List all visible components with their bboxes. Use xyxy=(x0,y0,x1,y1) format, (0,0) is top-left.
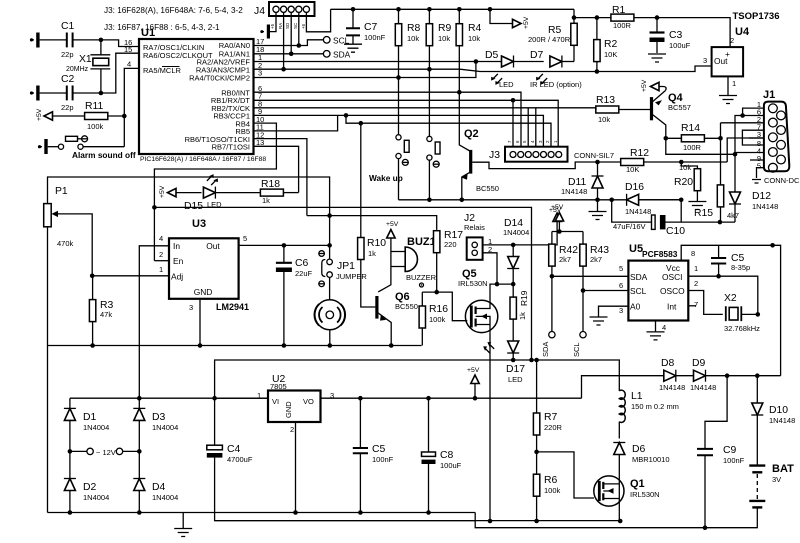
svg-text:1k: 1k xyxy=(262,196,270,205)
node C4 top xyxy=(212,396,217,401)
wire VO +5V up to D8 line xyxy=(582,376,664,399)
svg-text:10K: 10K xyxy=(626,165,639,174)
wire U5 pin8 Vcc riser xyxy=(681,245,772,260)
switch wake-up 1 xyxy=(396,78,409,200)
wire OSCO row to X2 left xyxy=(688,291,723,315)
svg-text:In: In xyxy=(173,241,180,251)
wire TSOP output row to U4 pin3 xyxy=(460,66,712,72)
J1 pin numbers xyxy=(757,100,761,171)
svg-text:J3: J3 xyxy=(489,150,500,161)
svg-text:1k: 1k xyxy=(518,312,527,320)
MOSFET Q5 IRL530N xyxy=(458,268,498,333)
ground at R20 xyxy=(688,202,706,210)
node D17 on raw line xyxy=(511,358,516,363)
wire R42 R43 top bar xyxy=(552,232,583,245)
diode D2 1N4004 xyxy=(64,451,109,512)
J3 tiny pin labels xyxy=(507,140,558,143)
svg-text:R15: R15 xyxy=(694,208,713,219)
svg-text:GND: GND xyxy=(284,401,293,418)
wire D6 to Q1 drain xyxy=(618,455,620,522)
transistor Q4 BC557 xyxy=(652,91,691,139)
wire bottom ground rail xyxy=(48,512,476,514)
svg-text:+5V: +5V xyxy=(159,185,166,198)
connector jack at C1 input xyxy=(30,33,40,48)
svg-text:100k: 100k xyxy=(429,315,446,324)
IC U5 PCF8583 xyxy=(619,243,698,321)
svg-text:100nF: 100nF xyxy=(372,455,394,464)
svg-text:J1: J1 xyxy=(763,89,775,101)
svg-text:MBR10010: MBR10010 xyxy=(632,455,670,464)
node R15 bottom xyxy=(718,220,723,225)
svg-text:+5V: +5V xyxy=(467,367,480,374)
node +5V arrow on VO line xyxy=(473,396,478,401)
J4 tiny pin net labels xyxy=(270,22,306,29)
wire RB1 row to J3 pin7 riser xyxy=(254,100,559,146)
svg-text:10k: 10k xyxy=(468,34,480,43)
svg-text:3: 3 xyxy=(619,306,623,315)
diode D7 IR LED xyxy=(530,50,582,89)
IC U3 LM2941 xyxy=(159,218,249,312)
svg-text:R8: R8 xyxy=(407,23,421,34)
ground at U5 A0 xyxy=(590,317,608,325)
node C9 branch on D8 line xyxy=(725,373,730,378)
node drain line J2 riser xyxy=(495,282,500,287)
svg-text:100R: 100R xyxy=(683,143,702,152)
svg-text:10k: 10k xyxy=(598,115,610,124)
node Q5 source on lower rail xyxy=(488,519,493,524)
power +5V arrow at D15 xyxy=(159,185,176,198)
capacitor C7 100nF xyxy=(346,9,386,44)
buzzer BUZ1 xyxy=(391,236,437,287)
svg-text:BC550: BC550 xyxy=(476,184,499,193)
wire C2 to U1 pin15 xyxy=(73,53,139,93)
node D11 bottom ground row xyxy=(595,198,600,203)
svg-text:J3: 16F628(A), 16F648A: 7-6, 5: J3: 16F628(A), 16F648A: 7-6, 5-4, 3-2 xyxy=(104,6,243,15)
op-amp U1 PIC16F628 body xyxy=(139,39,254,154)
diode D17 LED xyxy=(482,340,525,384)
svg-text:100uF: 100uF xyxy=(669,41,691,50)
wire C4 step to lower rail xyxy=(215,513,476,521)
connector J1 DB9 shell xyxy=(763,89,789,172)
wire J1 pin2 row xyxy=(721,122,764,124)
svg-text:LED: LED xyxy=(499,80,514,89)
svg-text:D9: D9 xyxy=(692,358,706,369)
svg-text:22p: 22p xyxy=(61,103,74,112)
resistor R9 10k xyxy=(426,9,451,69)
node on En column xyxy=(152,205,157,210)
wire R1 to U4 pin2 xyxy=(634,18,730,47)
resistor R10 1k xyxy=(358,123,387,307)
svg-text:2: 2 xyxy=(159,250,163,259)
wire J1 pin5 stub to ground xyxy=(757,168,764,178)
svg-text:+: + xyxy=(725,49,730,59)
wire J1 pin1 pin6 join xyxy=(743,108,764,115)
wire U3 GND to rail xyxy=(199,299,201,346)
wire U1 pin18 row to SDA bubble xyxy=(254,53,324,55)
wire Q4 collector to J1 pin4 row xyxy=(666,138,735,154)
wire Q5 drain riser xyxy=(490,284,513,300)
svg-text:Out: Out xyxy=(206,241,220,251)
svg-text:6: 6 xyxy=(619,281,623,290)
svg-text:CONN-SIL7: CONN-SIL7 xyxy=(574,151,614,160)
svg-text:LED: LED xyxy=(508,375,523,384)
inductor L1 150m xyxy=(619,390,679,422)
ground main symbol xyxy=(174,513,192,537)
svg-text:1: 1 xyxy=(732,79,736,88)
svg-text:D2: D2 xyxy=(83,482,97,493)
svg-text:R14: R14 xyxy=(681,123,700,134)
svg-text:Q2: Q2 xyxy=(464,128,479,140)
connector jack at C2 input xyxy=(30,86,40,101)
diode D12 1N4148 xyxy=(729,154,778,222)
svg-text:Q1: Q1 xyxy=(630,478,645,490)
svg-text:1N4148: 1N4148 xyxy=(625,207,651,216)
terminal ~12V left xyxy=(70,448,116,457)
node R2 bottom on TSOP row xyxy=(595,69,600,74)
svg-text:~ 12V: ~ 12V xyxy=(96,448,116,457)
ground at C7 xyxy=(344,44,362,52)
resistor R43 2k7 xyxy=(580,244,609,331)
svg-text:13: 13 xyxy=(256,138,264,147)
node R4 on rail xyxy=(457,7,462,12)
wire traverse RB6 to R17 top xyxy=(307,216,437,230)
svg-text:Relais: Relais xyxy=(464,223,485,232)
switch wake-up 2 xyxy=(427,69,440,200)
node +5V branch xyxy=(488,7,493,12)
svg-text:100uF: 100uF xyxy=(440,461,462,470)
capacitor C9 100nF xyxy=(697,445,745,528)
svg-text:J4: J4 xyxy=(254,6,265,17)
svg-text:PCF8583: PCF8583 xyxy=(642,249,678,259)
svg-text:3V: 3V xyxy=(772,475,781,484)
svg-text:X1: X1 xyxy=(79,54,92,65)
wire lower rail segment xyxy=(215,520,621,522)
svg-text:7805: 7805 xyxy=(270,382,287,391)
svg-text:R9: R9 xyxy=(438,23,452,34)
resistor R11 100k xyxy=(85,101,108,131)
wire C9 branch xyxy=(705,376,727,449)
svg-text:5: 5 xyxy=(619,264,623,273)
wire U2 GND to ground rail xyxy=(295,422,297,513)
svg-text:GND: GND xyxy=(194,287,213,297)
wire RA3 row to TSOP out xyxy=(254,68,461,70)
svg-text:D5: D5 xyxy=(485,50,499,61)
wire gate feed to Q1 xyxy=(537,452,594,498)
diode D8 1N4148 xyxy=(659,358,685,392)
node D4 on ground rail xyxy=(137,510,142,515)
wire J2 pin2 to drain line xyxy=(483,253,497,284)
svg-text:BUZZER: BUZZER xyxy=(406,273,437,282)
svg-text:D12: D12 xyxy=(752,191,771,202)
svg-text:2k7: 2k7 xyxy=(590,255,602,264)
svg-text:R18: R18 xyxy=(261,179,280,190)
ground at D11 xyxy=(589,200,607,220)
svg-text:R4: R4 xyxy=(468,23,482,34)
node R42 on SDA row xyxy=(550,274,555,279)
wire OSCI row to X2 right xyxy=(688,276,758,314)
svg-text:SCL: SCL xyxy=(572,342,581,357)
node R2 top xyxy=(595,15,600,20)
node D3 D4 junction xyxy=(137,449,142,454)
terminal SCL bubble bottom xyxy=(572,332,586,358)
svg-text:22uF: 22uF xyxy=(295,269,313,278)
node R4 on RB0 row xyxy=(457,90,462,95)
svg-text:15: 15 xyxy=(124,45,132,54)
resistor R20 10k xyxy=(674,162,701,201)
wire U3 In feed xyxy=(139,246,169,398)
node R6 bottom on lower rail xyxy=(534,519,539,524)
svg-text:En: En xyxy=(173,256,184,266)
svg-text:220: 220 xyxy=(444,240,457,249)
svg-text:IR LED (option): IR LED (option) xyxy=(530,80,582,89)
connector jack at alarm switch xyxy=(38,139,48,154)
svg-text:10k: 10k xyxy=(407,34,419,43)
node D16 right riser xyxy=(679,198,684,203)
svg-text:4k7: 4k7 xyxy=(727,211,739,220)
node C10 branch xyxy=(609,198,614,203)
svg-text:1N4004: 1N4004 xyxy=(83,423,109,432)
svg-text:32.768kHz: 32.768kHz xyxy=(724,324,760,333)
wire MCLR pin4 column xyxy=(124,68,139,146)
diode D10 1N4148 xyxy=(751,376,795,425)
wire RB3 row to J3 pin5 riser xyxy=(254,115,544,146)
svg-text:R7: R7 xyxy=(544,412,558,423)
wire R11 to MCLR column xyxy=(108,115,125,117)
wire R14 to J1 pin2 and R15 xyxy=(720,123,722,185)
svg-text:OSCO: OSCO xyxy=(660,286,685,296)
diode D14 1N4004 xyxy=(503,218,529,284)
svg-text:LM2941: LM2941 xyxy=(216,302,249,312)
svg-text:D3: D3 xyxy=(152,412,166,423)
svg-text:RB7/T1OSI: RB7/T1OSI xyxy=(212,143,250,152)
svg-text:150 m 0.2 mm: 150 m 0.2 mm xyxy=(631,402,679,411)
node R8 on rail xyxy=(396,7,401,12)
wire Vcc line to right edge down xyxy=(773,245,781,375)
node U3 GND on rail xyxy=(198,343,203,348)
potentiometer P1 470k xyxy=(44,186,92,276)
svg-text:+5V: +5V xyxy=(36,108,43,121)
wire D9 to right edge riser xyxy=(706,375,781,377)
wire raw line riser at C4 xyxy=(215,360,532,398)
node P1 wiper on Adj row xyxy=(90,274,95,279)
ground at C3 xyxy=(648,54,666,62)
svg-text:X2: X2 xyxy=(724,293,737,304)
wire jack to C1 xyxy=(40,39,67,41)
svg-text:4: 4 xyxy=(159,234,163,243)
ground at U4 pin1 xyxy=(719,96,737,104)
node traverse column on raw line xyxy=(529,358,534,363)
node C5b bottom on rail xyxy=(358,510,363,515)
node R9 on rail xyxy=(427,7,432,12)
wire RB5 row to RB3 join xyxy=(254,115,338,130)
node Q4 collector R14 xyxy=(664,136,669,141)
svg-text:2: 2 xyxy=(730,36,734,45)
resistor R17 220 xyxy=(434,230,464,292)
wire Q2 base to CONN-SIL7 node xyxy=(472,162,596,169)
U1 left pin numbers 16 15 4 xyxy=(124,38,132,69)
diode D15 LED xyxy=(184,173,222,212)
wire J3 pin1 riser xyxy=(512,100,514,146)
node RA4 step on D5 line xyxy=(474,59,479,64)
svg-text:1N4148: 1N4148 xyxy=(561,187,587,196)
svg-text:100R: 100R xyxy=(613,21,632,30)
svg-text:+5: +5 xyxy=(301,23,306,29)
resistor R42 2k7 xyxy=(549,244,579,331)
terminal SDA bubble xyxy=(323,50,350,60)
wire J1 pin9 stub xyxy=(750,159,764,161)
svg-text:R19: R19 xyxy=(519,290,529,306)
svg-text:470k: 470k xyxy=(57,239,74,248)
wire RB7 row down to R18 xyxy=(254,146,299,192)
power +5V arrow at R42 R43 xyxy=(551,204,564,232)
svg-text:Wake up: Wake up xyxy=(369,173,403,183)
wire U2 VO +5V line xyxy=(321,397,582,399)
svg-text:5: 5 xyxy=(757,162,761,171)
wire D7 to R5 bottom xyxy=(562,61,574,63)
svg-text:OSCI: OSCI xyxy=(662,272,682,282)
U1 right pin numbers xyxy=(256,37,264,147)
svg-text:10k: 10k xyxy=(679,163,691,172)
svg-text:P1: P1 xyxy=(55,186,68,197)
connector J4 xyxy=(254,2,315,17)
resistor R5 200R/470R xyxy=(528,18,577,62)
wire ground rail step down right xyxy=(475,513,758,528)
svg-text:D6: D6 xyxy=(632,444,646,455)
node C9 bottom rail xyxy=(703,525,708,530)
wire rail corner down to R1 line xyxy=(573,9,575,17)
capacitor C4 4700uF electrolytic xyxy=(207,398,253,512)
wire gate row R16 R17 to Q5 gate xyxy=(422,292,467,321)
battery BAT 3V xyxy=(749,415,794,528)
svg-text:A0: A0 xyxy=(630,302,641,312)
node Out row join column xyxy=(327,243,332,248)
resistor R14 100R xyxy=(666,123,721,152)
svg-text:1N4148: 1N4148 xyxy=(752,202,778,211)
svg-text:4700uF: 4700uF xyxy=(227,455,253,464)
wire D15 to R18 xyxy=(215,192,260,194)
node U2 GND on rail xyxy=(293,510,298,515)
svg-text:RA5/MCLR: RA5/MCLR xyxy=(143,66,182,75)
svg-text:SDA: SDA xyxy=(333,50,351,60)
resistor R3 47k xyxy=(89,276,113,346)
wire jack to C2 xyxy=(40,92,67,94)
wire RB0 row to J3 pin2 riser xyxy=(254,92,522,147)
svg-text:C5: C5 xyxy=(372,444,386,455)
wire RA2 row to D5 anode xyxy=(254,61,502,63)
node C5b top xyxy=(358,396,363,401)
svg-text:D17: D17 xyxy=(506,364,525,375)
node D14 top on J2 pin1 line xyxy=(511,243,516,248)
wire +5V top rail xyxy=(331,8,574,10)
node switch2 on ground row xyxy=(427,198,432,203)
wire D8 to D9 xyxy=(676,375,693,377)
svg-text:SDA: SDA xyxy=(630,272,648,282)
jumper JP1 xyxy=(319,245,368,286)
wire RB2 row to R13 xyxy=(254,107,597,109)
svg-text:220R: 220R xyxy=(544,423,563,432)
svg-text:D8: D8 xyxy=(661,358,675,369)
svg-text:C8: C8 xyxy=(440,450,454,461)
capacitor C2 22p xyxy=(61,74,75,112)
svg-text:1N4148: 1N4148 xyxy=(769,416,795,425)
wire U4 pin1 to ground xyxy=(727,76,729,95)
wire J4 pin5 to +5V rail xyxy=(306,9,330,32)
svg-text:47uF/16V: 47uF/16V xyxy=(613,222,646,231)
svg-text:CONN-DC: CONN-DC xyxy=(764,176,800,185)
wire speaker to rail xyxy=(329,330,331,346)
diode D3 1N4004 xyxy=(133,398,178,451)
node C7 on +5V rail xyxy=(351,7,356,12)
svg-text:100k: 100k xyxy=(87,122,104,131)
wire C10 bottom rail xyxy=(612,200,735,222)
wire P1 bottom to rail xyxy=(47,227,49,513)
svg-text:3: 3 xyxy=(703,56,707,65)
connector jack at J4 pin1 xyxy=(260,25,270,39)
wire C1 to U1 pin16 xyxy=(73,40,139,47)
capacitor C1 22p xyxy=(61,21,75,59)
svg-text:R10: R10 xyxy=(367,238,386,249)
capacitor C5 8-35p xyxy=(711,245,750,276)
svg-text:IRL530N: IRL530N xyxy=(458,279,488,288)
svg-text:VI: VI xyxy=(272,397,279,406)
node C5 on OSCI row xyxy=(716,274,721,279)
svg-text:U4: U4 xyxy=(735,26,750,38)
node C8 bottom on rail xyxy=(426,510,431,515)
resistor R4 10k xyxy=(456,9,481,92)
node J3 pin1 riser on RB1 row xyxy=(511,98,516,103)
svg-text:8: 8 xyxy=(691,249,695,258)
wire U2 VI xyxy=(215,397,268,399)
svg-text:TSOP1736: TSOP1736 xyxy=(733,11,780,22)
svg-text:RA: RA xyxy=(278,23,283,29)
svg-text:1N4004: 1N4004 xyxy=(503,228,529,237)
node traverse on JP1 column xyxy=(327,213,332,218)
svg-text:SD: SD xyxy=(285,22,290,29)
svg-text:10k: 10k xyxy=(438,34,450,43)
node R7 on raw line xyxy=(534,358,539,363)
node R3 bottom on rail xyxy=(90,343,95,348)
node C6 riser on Out row xyxy=(282,243,287,248)
connector J2 Relais xyxy=(464,213,492,260)
svg-text:R2: R2 xyxy=(604,39,618,50)
svg-text:PIC16F628(A) / 16F648A / 16F87: PIC16F628(A) / 16F648A / 16F87 / 16F88 xyxy=(140,156,266,163)
svg-text:1k: 1k xyxy=(368,249,376,258)
resistor R19 1k xyxy=(510,284,529,341)
svg-text:D1: D1 xyxy=(83,412,97,423)
resistor R18 1k xyxy=(260,179,283,205)
svg-text:1N4004: 1N4004 xyxy=(152,423,178,432)
node D1 D2 junction xyxy=(68,449,73,454)
wire J4 pin1 to jack xyxy=(270,12,276,31)
diode D9 1N4148 xyxy=(690,358,716,392)
diode D5 LED xyxy=(485,50,514,89)
wire mid ground rail xyxy=(48,345,422,347)
MOSFET Q1 IRL530N xyxy=(594,476,660,506)
switch S1 alarm sound off xyxy=(48,136,88,149)
node C6 bottom on rail xyxy=(282,343,287,348)
capacitor C5 100nF bottom xyxy=(353,398,394,512)
node R43 on SCL row xyxy=(581,288,586,293)
node D12 top on pin4 row xyxy=(733,152,738,157)
resistor R15 4k7 xyxy=(694,185,739,222)
svg-text:SC: SC xyxy=(293,22,298,29)
svg-text:C4: C4 xyxy=(227,444,241,455)
svg-text:C2: C2 xyxy=(61,74,75,85)
svg-text:BUZ1: BUZ1 xyxy=(407,236,436,248)
diode D1 1N4004 xyxy=(64,398,109,451)
terminal SCL bubble xyxy=(323,36,349,46)
power +5V arrow at J2 xyxy=(549,207,562,222)
